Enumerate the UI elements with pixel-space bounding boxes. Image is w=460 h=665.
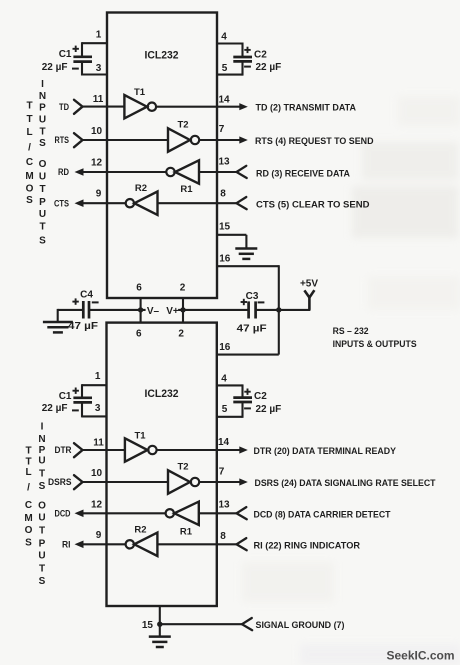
svg-text:O: O (26, 183, 34, 194)
net label TTL/CMOS (top section) (25, 101, 33, 207)
net label OUTPUTS (top section) (39, 159, 47, 247)
svg-text:12: 12 (91, 499, 103, 510)
chevron: SIGNAL GROUND (7) (242, 618, 252, 630)
svg-text:6: 6 (136, 328, 142, 339)
svg-text:C1: C1 (59, 391, 72, 402)
svg-text:T1: T1 (134, 87, 146, 98)
svg-text:P: P (39, 197, 46, 208)
svg-text:R2: R2 (134, 524, 146, 535)
pin 1 (top IC) (82, 42, 107, 44)
svg-text:I: I (41, 79, 44, 90)
svg-text:S: S (39, 481, 46, 492)
pin 16 (bottom IC) to +5V rail (278, 310, 280, 355)
svg-text:S: S (26, 195, 33, 206)
svg-text:DTR: DTR (55, 445, 72, 456)
svg-text:CTS: CTS (54, 198, 69, 209)
IC U2 (bottom ICL232) body (107, 323, 217, 606)
svg-text:T: T (25, 456, 31, 467)
svg-text:S: S (39, 236, 46, 247)
svg-text:C3: C3 (246, 291, 259, 302)
svg-text:T: T (39, 222, 45, 233)
svg-text:5: 5 (222, 63, 228, 74)
svg-text:9: 9 (96, 188, 102, 199)
wire CTS arrow to R2 (83, 202, 126, 204)
capacitor C4 (82, 301, 85, 319)
svg-text:16: 16 (219, 342, 231, 353)
node pin6 junction (140, 298, 142, 323)
receiver R2 (bottom) (126, 540, 134, 548)
svg-text:11: 11 (93, 437, 104, 448)
svg-text:C: C (26, 157, 33, 168)
svg-text:8: 8 (220, 531, 226, 542)
svg-text:8: 8 (220, 189, 226, 200)
node signal-ground junction (157, 622, 162, 627)
svg-text:16: 16 (219, 253, 231, 264)
wire RD arrow to R1 (83, 171, 166, 173)
pin 13 input chevron: RD (3) RECEIVE DATA (237, 166, 247, 178)
svg-text:N: N (38, 434, 45, 445)
svg-text:ICL232: ICL232 (145, 388, 179, 400)
svg-text:22 µF: 22 µF (256, 404, 282, 415)
svg-text:U: U (38, 551, 45, 562)
svg-text:SeekIC.com: SeekIC.com (387, 651, 455, 663)
pin 15 (bottom IC) (159, 606, 161, 624)
svg-text:2: 2 (178, 328, 184, 339)
wire R1 to pin 13 (199, 171, 237, 173)
svg-text:1: 1 (95, 371, 101, 382)
svg-text:12: 12 (91, 158, 103, 169)
wire DSRS input to T2 (83, 481, 169, 483)
wire T2 to pin 7 (199, 481, 240, 483)
net label V- (146, 305, 179, 316)
svg-text:RS – 232: RS – 232 (333, 326, 369, 337)
svg-text:T: T (26, 101, 32, 112)
svg-text:N: N (39, 91, 46, 102)
capacitor C2 (bottom IC) (241, 384, 243, 397)
svg-text:4: 4 (221, 32, 227, 43)
svg-text:S: S (39, 138, 46, 149)
wire V-/V+ rail (58, 309, 84, 311)
pin 3 (top IC) (82, 73, 107, 75)
wire T1 to pin 14 (156, 106, 240, 108)
svg-text:P: P (39, 538, 46, 549)
wire rail left drop to ground (57, 309, 59, 322)
svg-text:U: U (38, 513, 45, 524)
pin 5 (bottom IC) (217, 416, 243, 418)
svg-text:T: T (26, 114, 32, 125)
svg-text:O: O (39, 159, 47, 170)
svg-text:/: / (27, 483, 30, 494)
wire RTS input to T2 (83, 139, 169, 141)
svg-text:TD (2) TRANSMIT DATA: TD (2) TRANSMIT DATA (256, 103, 357, 114)
svg-text:22 µF: 22 µF (256, 62, 282, 73)
svg-text:DTR (20) DATA TERMINAL READY: DTR (20) DATA TERMINAL READY (254, 446, 397, 457)
pin 14 output arrow: TD (2) TRANSMIT DATA (239, 103, 248, 110)
svg-text:RI: RI (62, 540, 71, 551)
capacitor C1 (top IC) (81, 42, 83, 56)
svg-text:10: 10 (91, 468, 103, 479)
svg-text:3: 3 (96, 63, 102, 74)
node +5V junction (276, 307, 281, 312)
svg-text:10: 10 (91, 126, 103, 137)
svg-text:U: U (39, 172, 46, 183)
svg-text:I: I (41, 421, 44, 432)
svg-text:T: T (39, 184, 45, 195)
svg-text:RI (22) RING INDICATOR: RI (22) RING INDICATOR (254, 540, 361, 551)
svg-text:RD: RD (58, 167, 69, 178)
svg-text:SIGNAL GROUND (7): SIGNAL GROUND (7) (256, 620, 345, 631)
wire T1 to pin 14 (157, 449, 241, 451)
svg-text:3: 3 (95, 403, 101, 414)
svg-text:TD: TD (59, 102, 69, 113)
svg-text:2: 2 (180, 282, 186, 293)
svg-text:C2: C2 (254, 391, 267, 402)
svg-text:T: T (39, 564, 45, 575)
svg-text:DSRS: DSRS (48, 477, 72, 488)
wire RI arrow to R2 (83, 543, 126, 545)
svg-text:6: 6 (136, 282, 142, 293)
svg-text:C4: C4 (80, 289, 93, 300)
pin 1 (bottom IC) (82, 384, 107, 386)
svg-text:R1: R1 (180, 526, 193, 537)
capacitor C1 (bottom IC) (81, 384, 83, 397)
svg-text:DCD: DCD (55, 509, 71, 520)
svg-text:RTS (4) REQUEST TO SEND: RTS (4) REQUEST TO SEND (255, 136, 374, 147)
pin 14 output arrow: DTR (20) DATA TERMINAL READY (239, 446, 248, 453)
svg-text:5: 5 (222, 404, 228, 415)
pin 5 (top IC) (217, 74, 243, 76)
wire R2 to pin 8 (158, 202, 237, 204)
svg-text:T: T (25, 446, 31, 457)
pin 7 output arrow: DSRS (24) DATA SIGNALING RATE SELECT (239, 478, 248, 485)
pin 8 input chevron: CTS (5) CLEAR TO SEND (237, 197, 247, 209)
svg-text:C2: C2 (254, 49, 267, 60)
svg-text:47 µF: 47 µF (68, 321, 98, 332)
ground (top IC pin 15) (235, 247, 257, 250)
pin 4 (top IC) (217, 42, 243, 44)
net label INPUTS (top section) (39, 79, 46, 149)
svg-text:22 µF: 22 µF (42, 62, 68, 73)
svg-text:DSRS (24) DATA SIGNALING RATE: DSRS (24) DATA SIGNALING RATE SELECT (255, 478, 436, 489)
svg-text:15: 15 (219, 222, 231, 233)
svg-text:R1: R1 (180, 184, 193, 195)
op-amp buffer T2 (bottom) (168, 470, 190, 493)
pin 7 output arrow: RTS (4) REQUEST TO SEND (239, 136, 248, 143)
svg-text:C: C (25, 500, 32, 511)
svg-text:1: 1 (96, 30, 102, 41)
wire pin16 riser (278, 265, 280, 310)
svg-text:14: 14 (218, 437, 230, 448)
svg-text:L: L (25, 467, 31, 478)
svg-text:S: S (39, 576, 46, 587)
svg-text:T1: T1 (134, 430, 146, 441)
net label OUTPUTS (bottom section) (38, 501, 46, 587)
svg-text:U: U (39, 209, 46, 220)
ground (signal ground) (159, 624, 161, 636)
svg-text:7: 7 (219, 466, 225, 477)
svg-text:+5V: +5V (300, 279, 318, 290)
ground (rail left / C4) (43, 321, 73, 324)
wire R2 to pin 8 (157, 543, 236, 545)
svg-text:ICL232: ICL232 (145, 50, 179, 62)
wire TD input to T1 (83, 106, 125, 108)
svg-text:13: 13 (218, 157, 230, 168)
svg-text:V–: V– (147, 306, 160, 317)
pin 8 input chevron: RI (22) RING INDICATOR (237, 538, 247, 550)
svg-text:INPUTS & OUTPUTS: INPUTS & OUTPUTS (333, 339, 417, 350)
svg-text:CTS (5) CLEAR TO SEND: CTS (5) CLEAR TO SEND (256, 199, 370, 210)
capacitor C2 (top IC) (241, 43, 243, 57)
svg-text:14: 14 (218, 95, 230, 106)
svg-text:L: L (26, 127, 32, 138)
svg-text:T2: T2 (177, 120, 188, 131)
pin 3 (bottom IC) (82, 415, 107, 417)
svg-text:U: U (39, 114, 46, 125)
svg-text:O: O (38, 501, 46, 512)
svg-text:M: M (25, 171, 33, 182)
svg-text:P: P (39, 445, 46, 456)
receiver R1 (top) (166, 168, 174, 176)
svg-text:9: 9 (96, 530, 102, 541)
receiver R2 (top) (126, 199, 134, 207)
pin 15 (top IC) to ground (217, 234, 246, 236)
net label TTL/CMOS (bottom section) (24, 446, 32, 549)
op-amp buffer T1 (top) (124, 95, 147, 118)
svg-text:47 µF: 47 µF (237, 324, 267, 335)
svg-text:RD (3) RECEIVE DATA: RD (3) RECEIVE DATA (256, 169, 350, 180)
svg-text:C1: C1 (59, 49, 72, 60)
svg-text:R2: R2 (135, 183, 147, 194)
svg-text:M: M (24, 513, 32, 524)
svg-text:7: 7 (219, 124, 225, 135)
svg-text:O: O (25, 525, 33, 536)
pin 4 (bottom IC) (217, 384, 243, 386)
svg-text:/: / (28, 142, 31, 153)
+5V supply symbol (308, 298, 311, 310)
wire R1 to pin 13 (199, 512, 237, 514)
wire signal ground to chevron (160, 623, 242, 625)
op-amp buffer T2 (top) (168, 128, 190, 151)
wire T2 to pin 7 (199, 139, 240, 141)
op-amp buffer T1 (bottom) (125, 438, 148, 461)
svg-text:S: S (25, 538, 32, 549)
svg-text:T: T (39, 126, 45, 137)
svg-text:T2: T2 (177, 462, 188, 473)
pin 13 input chevron: DCD (8) DATA CARRIER DETECT (237, 507, 247, 519)
svg-text:11: 11 (93, 94, 104, 105)
svg-text:4: 4 (221, 374, 227, 385)
svg-text:V+: V+ (166, 306, 179, 317)
capacitor C3 (247, 301, 250, 318)
svg-text:U: U (38, 456, 45, 467)
receiver R1 (bottom) (166, 509, 174, 517)
wire DCD arrow to R1 (83, 512, 166, 514)
svg-text:22 µF: 22 µF (42, 403, 68, 414)
wire DTR input to T1 (83, 449, 125, 451)
pin 16 (top IC) to +5V rail (217, 265, 279, 267)
net label INPUTS (bottom section) (38, 421, 45, 492)
svg-text:13: 13 (218, 500, 230, 511)
svg-text:RTS: RTS (55, 135, 70, 146)
svg-text:P: P (39, 102, 46, 113)
svg-text:T: T (39, 468, 45, 479)
node pin2 junction (182, 298, 184, 323)
svg-text:DCD (8) DATA CARRIER DETECT: DCD (8) DATA CARRIER DETECT (254, 509, 391, 520)
svg-text:15: 15 (142, 620, 154, 631)
IC U1 (top ICL232) body (107, 13, 217, 299)
svg-text:T: T (39, 526, 45, 537)
